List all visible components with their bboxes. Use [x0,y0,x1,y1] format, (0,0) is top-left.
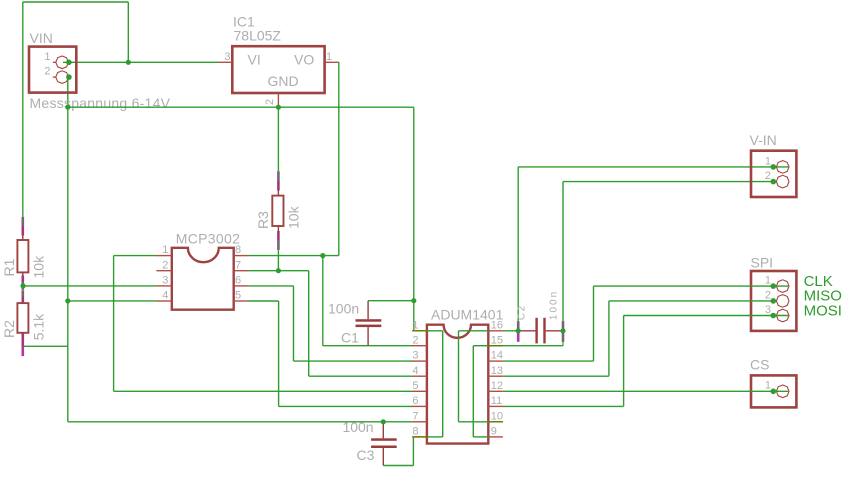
svg-text:1: 1 [44,51,50,63]
svg-text:5.1k: 5.1k [30,313,46,340]
svg-text:C3: C3 [357,447,375,463]
svg-text:10: 10 [491,410,503,422]
svg-text:11: 11 [491,395,502,407]
svg-text:2: 2 [44,66,50,78]
svg-text:14: 14 [491,350,503,362]
svg-text:3: 3 [412,350,418,362]
svg-text:C1: C1 [341,330,359,346]
svg-text:V-IN: V-IN [750,132,777,148]
svg-text:4: 4 [162,290,168,302]
svg-text:1: 1 [765,275,771,287]
svg-text:100n: 100n [328,301,359,317]
svg-text:Messspannung 6-14V: Messspannung 6-14V [30,95,171,111]
svg-text:16: 16 [491,319,503,331]
svg-text:SPI: SPI [751,254,774,270]
svg-text:1: 1 [412,319,418,331]
svg-text:13: 13 [491,365,503,377]
svg-text:VI: VI [248,52,261,68]
svg-text:C2: C2 [517,304,528,320]
svg-text:12: 12 [491,380,503,392]
svg-text:1: 1 [326,51,332,63]
svg-text:GND: GND [268,73,299,89]
svg-text:3: 3 [765,304,771,316]
svg-text:5: 5 [235,290,241,302]
svg-text:4: 4 [412,365,418,377]
svg-text:10k: 10k [30,255,46,279]
svg-text:2: 2 [264,99,276,105]
svg-text:R3: R3 [255,211,271,229]
svg-text:VIN: VIN [30,30,53,46]
svg-text:3: 3 [162,275,168,287]
svg-text:MOSI: MOSI [804,303,842,320]
svg-text:1: 1 [765,380,771,392]
svg-text:2: 2 [765,289,771,301]
svg-text:CS: CS [750,357,769,373]
svg-text:7: 7 [412,410,418,422]
svg-text:MCP3002: MCP3002 [176,231,240,247]
svg-text:10k: 10k [286,205,302,229]
svg-text:2: 2 [162,259,168,271]
svg-text:100n: 100n [548,290,559,320]
svg-text:3: 3 [224,51,230,63]
svg-text:7: 7 [235,259,241,271]
svg-text:2: 2 [412,334,418,346]
svg-text:1: 1 [162,244,168,256]
svg-text:8: 8 [235,244,241,256]
svg-text:9: 9 [491,426,497,438]
svg-text:78L05Z: 78L05Z [234,28,282,44]
svg-text:8: 8 [412,426,418,438]
svg-text:1: 1 [765,155,771,167]
svg-text:R1: R1 [1,258,17,276]
svg-text:VO: VO [294,52,314,68]
svg-text:15: 15 [491,334,503,346]
svg-text:6: 6 [235,275,241,287]
svg-text:R2: R2 [1,320,17,338]
svg-text:6: 6 [412,395,418,407]
svg-text:5: 5 [412,380,418,392]
svg-text:2: 2 [765,170,771,182]
